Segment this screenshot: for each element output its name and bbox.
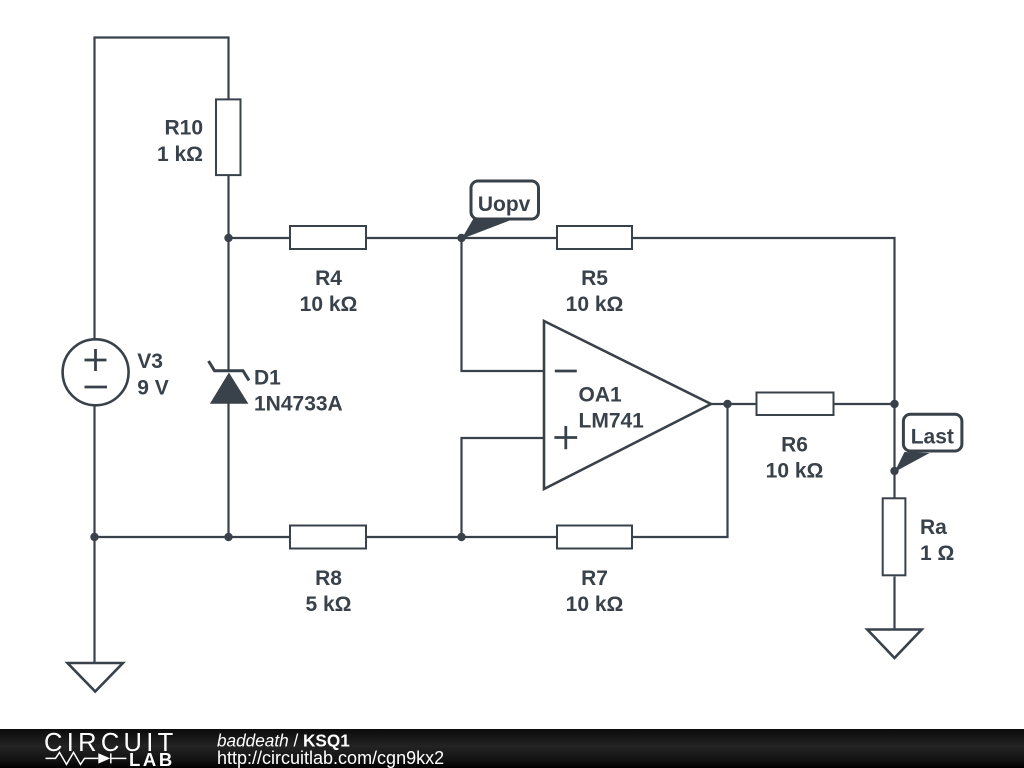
svg-text:D1: D1 — [254, 366, 281, 389]
svg-text:R8: R8 — [315, 567, 342, 590]
resistor Ra body — [883, 498, 906, 575]
node Uopv callout — [462, 181, 539, 239]
svg-text:9 V: 9 V — [137, 377, 169, 400]
svg-text:1 kΩ: 1 kΩ — [157, 143, 203, 166]
svg-text:OA1: OA1 — [579, 383, 623, 406]
junction dot R10/R4/D1 node — [224, 234, 232, 242]
svg-text:R7: R7 — [581, 567, 608, 590]
svg-text:LAB: LAB — [129, 749, 175, 768]
svg-text:10 kΩ: 10 kΩ — [766, 459, 824, 482]
junction dot Last node — [890, 467, 898, 475]
CircuitLab logo squiggle — [46, 752, 127, 764]
svg-text:Ra: Ra — [920, 516, 947, 539]
wire R8 to R7 — [367, 536, 556, 538]
svg-text:5 kΩ: 5 kΩ — [305, 593, 351, 616]
resistor R8 body — [290, 526, 366, 549]
svg-text:10 kΩ: 10 kΩ — [300, 293, 358, 316]
svg-text:http://circuitlab.com/cgn9kx2: http://circuitlab.com/cgn9kx2 — [217, 748, 444, 768]
svg-text:LM741: LM741 — [579, 409, 645, 432]
wire R5 to right rail corner down — [633, 238, 895, 404]
svg-text:Last: Last — [911, 426, 954, 449]
wire right rail middle — [893, 404, 895, 498]
svg-text:R5: R5 — [581, 267, 608, 290]
wire top loop V3 to R10 — [95, 38, 229, 340]
wire op-amp output — [711, 403, 756, 405]
wire node to R4 — [229, 237, 290, 239]
junction dot R6 right rail — [890, 400, 898, 408]
wire bottom rail left — [95, 536, 290, 538]
junction dot op-amp output feedback — [723, 400, 731, 408]
junction dot D1 bottom rail — [224, 533, 232, 541]
svg-text:R6: R6 — [781, 433, 808, 456]
wire minus input branch — [462, 238, 545, 371]
wire R6 to right rail — [835, 403, 895, 405]
wire D1 top — [227, 238, 229, 372]
wire R10 bottom to node — [227, 176, 229, 239]
wire R7 to feedback corner up — [633, 404, 728, 537]
resistor R4 body — [290, 226, 366, 249]
wire left rail to ground — [93, 537, 95, 663]
resistor R5 body — [557, 226, 632, 249]
junction dot V3 bottom rail — [90, 533, 98, 541]
zener diode D1 — [209, 361, 250, 404]
wire V3 bottom down — [93, 406, 95, 538]
resistor R6 body — [757, 393, 834, 416]
wire R4 to R5 through Uopv node — [367, 237, 556, 239]
node Last callout — [895, 414, 962, 472]
svg-text:V3: V3 — [137, 350, 163, 373]
wire Ra to ground — [893, 577, 895, 630]
junction dot Uopv node — [457, 234, 465, 242]
svg-text:10 kΩ: 10 kΩ — [566, 293, 624, 316]
junction dot plus branch bottom rail — [457, 533, 465, 541]
resistor R10 body — [216, 99, 241, 175]
wire plus input branch — [462, 438, 545, 537]
svg-text:R10: R10 — [164, 117, 203, 140]
svg-text:1N4733A: 1N4733A — [254, 392, 343, 415]
svg-text:Uopv: Uopv — [478, 193, 531, 216]
voltage source V3 — [63, 339, 129, 405]
svg-text:R4: R4 — [315, 267, 342, 290]
op-amp OA1 — [544, 321, 711, 489]
ground right — [867, 630, 921, 659]
wire D1 bottom — [227, 403, 229, 537]
resistor R7 body — [557, 526, 632, 549]
svg-text:1 Ω: 1 Ω — [920, 542, 954, 565]
svg-text:10 kΩ: 10 kΩ — [566, 593, 624, 616]
ground left — [68, 663, 123, 692]
